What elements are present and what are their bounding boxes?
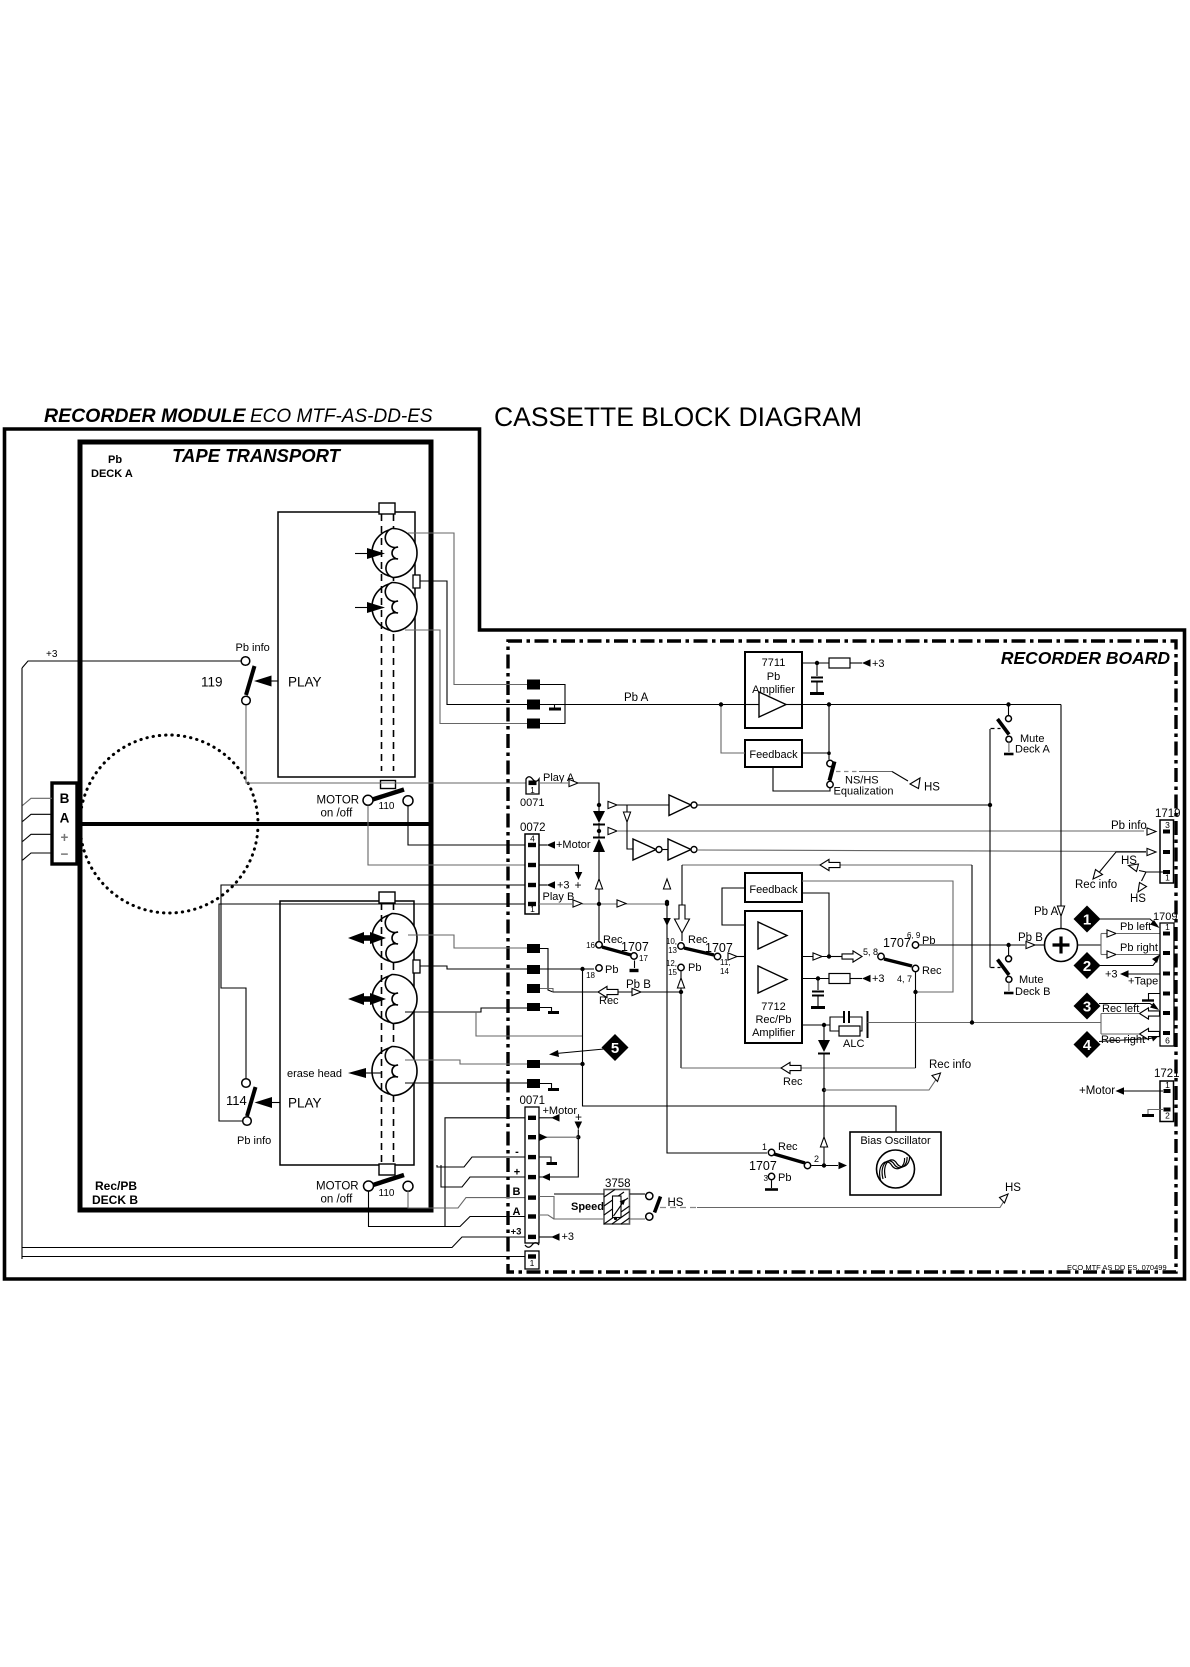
- wire 1721 +Motor: [1079, 1085, 1163, 1097]
- wire Play A out: [539, 779, 599, 805]
- switch 114 top contact: [242, 1079, 251, 1088]
- svg-text:3: 3: [764, 1174, 769, 1183]
- svg-text:Amplifier: Amplifier: [752, 1027, 795, 1039]
- svg-text:B: B: [513, 1186, 521, 1198]
- switch 1707-D lever: [774, 1154, 805, 1163]
- wire headB2 branch: [476, 1012, 583, 1036]
- wire rec loop into 10-13: [675, 865, 690, 941]
- switch NS/HS eq bottom contact: [827, 781, 833, 787]
- wire feedbackA left: [719, 702, 745, 753]
- pad B4 ground stub: [540, 1008, 559, 1013]
- diamond 4: [1074, 1031, 1160, 1058]
- mute deck A switch: [991, 702, 1014, 754]
- wire 11/14 to amp: [728, 953, 745, 960]
- wire motorB branch up x445: [445, 1118, 525, 1227]
- deck A head 2 arrow: [355, 602, 385, 613]
- label 0071 +Motor: [539, 1105, 577, 1122]
- wire motorB left down: [369, 1191, 526, 1227]
- wire headB2 to pad4: [405, 1008, 527, 1012]
- deck B head 2: [372, 974, 417, 1023]
- wire feedbackB outer loop: [802, 881, 953, 992]
- svg-text:3: 3: [1165, 820, 1170, 830]
- wire Play B out: [539, 900, 667, 907]
- svg-text:erase head: erase head: [287, 1068, 342, 1080]
- wire 114 top to +3 0072: [221, 885, 525, 1079]
- svg-text:+Motor: +Motor: [1079, 1085, 1115, 1097]
- switch 1707-A pin16: [586, 934, 649, 954]
- svg-text:1: 1: [1083, 912, 1091, 929]
- diamond 1: [1074, 906, 1160, 933]
- svg-text:Mute: Mute: [1019, 974, 1043, 986]
- switch 114 play arrow: [255, 1096, 322, 1111]
- feedback box A: [745, 740, 802, 767]
- wire 7711 supply: [802, 661, 829, 665]
- deck B tape path dashed: [382, 903, 394, 1164]
- switch 1707-A pin17: [630, 953, 649, 971]
- svg-text:Rec/Pb: Rec/Pb: [755, 1014, 791, 1026]
- switch NS/HS eq lever: [830, 762, 835, 781]
- wire connector-minus hook: [23, 853, 53, 860]
- label 0071 +3 right: [539, 1231, 574, 1243]
- switch 114 bottom contact: [243, 1117, 252, 1126]
- svg-text:+Motor: +Motor: [556, 839, 591, 851]
- switch 1707-B lever: [684, 948, 714, 955]
- svg-text:Pb right: Pb right: [1120, 942, 1158, 954]
- deck divider line: [80, 822, 431, 826]
- deck A head box: [278, 512, 415, 777]
- switch 1707-B pin 11/14: [714, 953, 730, 976]
- diode D1: [593, 783, 605, 837]
- switch 1707-C pin 6/9: [883, 931, 935, 950]
- svg-text:HS: HS: [1005, 1182, 1021, 1194]
- svg-text:2: 2: [814, 1154, 819, 1164]
- wire Pb info long: [597, 827, 1144, 834]
- wire Pb A line: [540, 692, 1061, 705]
- labels 0071 left pins: [511, 1146, 522, 1238]
- label Pb right: [1120, 942, 1158, 954]
- svg-text:2: 2: [1083, 958, 1091, 975]
- svg-text:RECORDER BOARD: RECORDER BOARD: [1001, 648, 1171, 668]
- svg-text:4, 7: 4, 7: [897, 974, 912, 984]
- connector 1719: [1155, 808, 1181, 883]
- wire Rec info: [824, 1059, 971, 1090]
- speed box: [539, 1194, 604, 1219]
- motor switch deck B contacts: [364, 1181, 414, 1191]
- switch 1707-D pin2: [749, 1154, 819, 1173]
- switch 114 lever: [247, 1087, 256, 1116]
- svg-text:ECO MTF-AS-DD-ES: ECO MTF-AS-DD-ES: [250, 406, 433, 427]
- wire rec loop top: [682, 859, 972, 870]
- diode D3: [818, 1025, 830, 1168]
- svg-text:7712: 7712: [761, 1001, 785, 1013]
- svg-text:HS: HS: [924, 782, 940, 794]
- label Rec 4/7: [922, 965, 942, 977]
- switch 119 bottom contact: [242, 696, 251, 705]
- wire connector-B hook: [23, 798, 53, 805]
- wire Pb A down: [1034, 705, 1065, 929]
- svg-text:3758: 3758: [605, 1178, 631, 1190]
- label TAPE TRANSPORT: [172, 445, 342, 466]
- svg-text:Rec info: Rec info: [929, 1059, 971, 1071]
- svg-text:1: 1: [530, 904, 535, 914]
- deck B erase head: [372, 1046, 417, 1095]
- svg-text:Rec: Rec: [783, 1076, 803, 1088]
- svg-text:1: 1: [1165, 922, 1170, 932]
- svg-text:110: 110: [379, 1188, 395, 1199]
- svg-text:114: 114: [226, 1093, 247, 1108]
- svg-text:HS: HS: [1121, 855, 1137, 867]
- label Play B: [543, 891, 575, 903]
- svg-text:7711: 7711: [762, 657, 786, 669]
- svg-text:Equalization: Equalization: [834, 786, 894, 798]
- wire left bus x22: [21, 668, 23, 1259]
- label 0072 +Motor: [539, 839, 591, 851]
- svg-text:+3: +3: [872, 973, 885, 985]
- svg-text:MOTOR: MOTOR: [317, 795, 360, 807]
- wire bottom bus 1259: [22, 1256, 525, 1258]
- wire PlayA junction arrow: [597, 801, 669, 808]
- wire feedbackA right: [802, 752, 829, 754]
- pads deck A group: [527, 680, 540, 729]
- wire padB3 to PbB line: [540, 989, 676, 993]
- wire x599 up arrow: [595, 879, 602, 889]
- wire connector-A hook: [23, 814, 53, 821]
- wire rec loop bottom: [681, 1062, 916, 1088]
- svg-text:17: 17: [639, 954, 648, 963]
- switch 1707-C pin 5/8: [878, 953, 884, 959]
- wire feedbackA bottom: [773, 767, 830, 791]
- switch 1707-D pin1: [762, 1141, 798, 1156]
- resistor R-7712: [802, 973, 885, 985]
- wire HS dashed: [660, 1182, 1021, 1208]
- svg-text:4: 4: [1083, 1037, 1092, 1054]
- switch 1707-B pins 10/13: [666, 934, 733, 955]
- svg-text:−: −: [61, 847, 69, 862]
- wire x627 branch: [623, 805, 633, 849]
- switch 1707-D pin3: [764, 1172, 792, 1190]
- svg-text:Rec right: Rec right: [1101, 1034, 1145, 1046]
- svg-text:Rec info: Rec info: [1075, 879, 1117, 891]
- wire 119 to Play A: [246, 706, 526, 784]
- wire feedbackB right: [802, 893, 829, 957]
- wire headA1 to pad: [408, 533, 527, 685]
- switch 119 labels: [201, 642, 270, 690]
- svg-text:Feedback: Feedback: [749, 749, 798, 761]
- svg-text:Rec: Rec: [599, 995, 619, 1007]
- motor switch deck A lever: [373, 790, 405, 800]
- motor switch deck B lever: [373, 1175, 404, 1185]
- wire motorA left to 0072: [368, 806, 525, 866]
- wire headA2 to pad: [405, 630, 527, 724]
- pads deck B group: [527, 944, 540, 1088]
- svg-text:15: 15: [668, 968, 677, 977]
- svg-text:Deck B: Deck B: [1015, 986, 1050, 998]
- svg-text:ALC: ALC: [843, 1038, 864, 1050]
- svg-text:on /off: on /off: [321, 808, 354, 820]
- motor switch deck A labels: [317, 795, 395, 820]
- svg-text:Rec/PB: Rec/PB: [95, 1179, 137, 1193]
- svg-text:Pb: Pb: [767, 671, 780, 683]
- deck A head 1 arrow: [355, 548, 385, 559]
- wire mute ctrl x990: [988, 729, 992, 968]
- capacitor C-7712: [811, 979, 825, 1008]
- svg-text:+3: +3: [557, 880, 570, 892]
- svg-text:on /off: on /off: [321, 1194, 354, 1206]
- svg-text:18: 18: [586, 971, 595, 980]
- label Rec right: [1101, 1028, 1160, 1046]
- wire 4/7 down: [913, 973, 917, 1069]
- recorder board dash-dot border: [508, 641, 1176, 1272]
- deck A head 1: [372, 528, 417, 577]
- svg-text:1707: 1707: [883, 936, 911, 950]
- svg-text:0071: 0071: [520, 797, 544, 809]
- svg-text:Pb: Pb: [688, 962, 701, 974]
- erase head label+arrow: [287, 1068, 382, 1080]
- op-amp 7712: [745, 911, 802, 1043]
- deck B tape guide bottom: [379, 1164, 395, 1175]
- wire 0072 pin2 plus tag: [539, 865, 582, 892]
- wire bias feed x666: [665, 900, 669, 904]
- svg-text:1: 1: [1165, 873, 1170, 883]
- wire 6/9 PbB: [920, 932, 1045, 949]
- inverter U1: [669, 795, 990, 816]
- svg-text:16: 16: [586, 941, 595, 950]
- wire pin2 to bias osc: [812, 1162, 848, 1170]
- bias oscillator box: [850, 1132, 941, 1195]
- switch 114 labels: [226, 1093, 271, 1147]
- switch NS/HS eq top contact: [827, 760, 833, 766]
- connector 0071 top: [520, 777, 544, 809]
- label Rec left: [1102, 1003, 1160, 1019]
- wire erase top to pad: [405, 1060, 527, 1064]
- svg-text:Deck A: Deck A: [1015, 744, 1051, 756]
- wire rec loop right: [971, 865, 973, 1023]
- dotted motor circle deck A: [80, 735, 258, 913]
- wire 1719 pin2 recinfo: [1075, 848, 1156, 891]
- footer code: [1067, 1263, 1167, 1272]
- svg-text:-: -: [515, 1146, 519, 1158]
- op-amp 7711: [745, 652, 802, 728]
- wire sum to bracket: [1078, 944, 1102, 946]
- deck B head 2 double arrow: [348, 993, 386, 1005]
- connector 1721: [1154, 1068, 1180, 1122]
- deck B tape guide top: [379, 892, 395, 903]
- connector 1709: [1153, 911, 1177, 1046]
- wire motorB right to B pin: [408, 1191, 525, 1208]
- label 0072 +3: [539, 880, 570, 892]
- wire padB2 to pin18: [540, 968, 594, 970]
- diode D2: [593, 838, 605, 942]
- svg-text:Pb info: Pb info: [237, 1135, 271, 1147]
- switch 119 top contact: [241, 657, 250, 666]
- junction PlayB x667: [663, 879, 767, 1153]
- svg-text:1: 1: [530, 1258, 535, 1268]
- pads deck A bracket: [540, 685, 565, 724]
- wire erase bottom to pad: [405, 1082, 527, 1084]
- recorder module border: [5, 429, 1185, 1279]
- svg-text:DECK B: DECK B: [92, 1193, 138, 1207]
- svg-text:+: +: [61, 830, 69, 845]
- wire headB1 to pad: [408, 935, 527, 948]
- wire +3 top: [22, 649, 241, 668]
- svg-text:HS: HS: [1130, 893, 1146, 905]
- svg-text:4: 4: [530, 834, 535, 844]
- junction PbA x829: [827, 702, 831, 759]
- junction Play B x599: [597, 902, 601, 906]
- wire connector-plus hook: [23, 834, 53, 841]
- svg-text:1: 1: [1165, 1080, 1170, 1090]
- svg-text:Pb A: Pb A: [624, 692, 649, 704]
- svg-text:12,: 12,: [666, 959, 677, 968]
- inverter U3: [668, 839, 1146, 860]
- switch 119 play arrow: [254, 675, 322, 690]
- ALC network: [802, 1011, 868, 1050]
- svg-text:+: +: [514, 1167, 520, 1179]
- motor switch deck A contacts: [363, 795, 413, 805]
- svg-text:Pb: Pb: [605, 964, 618, 976]
- label Pb Deck A: [91, 454, 133, 480]
- svg-text:119: 119: [201, 675, 223, 690]
- svg-text:2: 2: [1165, 1111, 1170, 1121]
- wire headB junction to pad: [420, 966, 527, 969]
- svg-text:5: 5: [611, 1040, 619, 1057]
- svg-text:1721: 1721: [1154, 1068, 1180, 1080]
- svg-text:Speed: Speed: [571, 1201, 604, 1213]
- svg-text:ECO MTF AS DD ES, 070499: ECO MTF AS DD ES, 070499: [1067, 1263, 1167, 1272]
- wire padB1 to PbB line: [540, 949, 553, 993]
- deck B head box: [280, 901, 414, 1165]
- svg-text:A: A: [513, 1206, 521, 1218]
- label mute deck B: [1015, 974, 1050, 998]
- label Rec/PB Deck B: [92, 1179, 138, 1207]
- wire padB5 right: [540, 1063, 583, 1065]
- svg-text:Pb info: Pb info: [1111, 820, 1147, 832]
- feedback box B: [745, 873, 802, 902]
- title ECO MTF-AS-DD-ES: [250, 406, 433, 427]
- diamond 3: [1074, 993, 1160, 1020]
- svg-text:0072: 0072: [520, 822, 546, 834]
- switch 119 lever: [246, 666, 255, 695]
- tape transport box: [80, 442, 431, 1210]
- svg-text:Pb left: Pb left: [1120, 921, 1151, 933]
- svg-text:110: 110: [379, 801, 395, 812]
- svg-text:TAPE TRANSPORT: TAPE TRANSPORT: [172, 445, 342, 466]
- deck A tape path dashed: [382, 514, 394, 771]
- svg-text:+Motor: +Motor: [543, 1105, 578, 1117]
- svg-text:B: B: [60, 791, 70, 806]
- svg-text:Pb A: Pb A: [1034, 906, 1059, 918]
- wire pin12/15 down: [677, 972, 684, 1069]
- wire 0071 minus pin left: [437, 1157, 525, 1167]
- wire 0071 plus net: [539, 1110, 582, 1181]
- svg-text:Bias Oscillator: Bias Oscillator: [860, 1135, 931, 1147]
- wire ALC to rec pins: [868, 1020, 1102, 1024]
- label +3 +Tape: [1105, 969, 1160, 988]
- svg-text:+Tape: +Tape: [1128, 976, 1158, 988]
- capacitor C-7711: [810, 665, 824, 694]
- svg-text:1: 1: [762, 1142, 767, 1152]
- pad B6 ground stub: [540, 1084, 559, 1090]
- svg-text:Pb: Pb: [778, 1172, 791, 1184]
- svg-text:Pb info: Pb info: [236, 642, 270, 654]
- svg-text:0071: 0071: [520, 1095, 546, 1107]
- connector 0071 bottom: [520, 1095, 546, 1269]
- motor switch deck B labels: [316, 1181, 395, 1206]
- diamond 5: [549, 1034, 629, 1061]
- wire feedbackB left: [722, 888, 745, 925]
- svg-text:3: 3: [1083, 999, 1091, 1016]
- label Pb info 1719: [1111, 820, 1156, 835]
- svg-text:1719: 1719: [1155, 808, 1181, 820]
- switch 1707-A lever: [602, 947, 631, 955]
- wire bottom bus 1247: [22, 1237, 525, 1248]
- bracket Rec left/right: [1101, 1014, 1139, 1035]
- svg-text:Rec: Rec: [922, 965, 942, 977]
- wire 114 bottom PlayB: [219, 904, 525, 1121]
- bracket Pb left/right: [1101, 930, 1160, 958]
- summing junction: [1045, 929, 1078, 962]
- svg-text:+3: +3: [511, 1227, 522, 1238]
- wire 1719 pin1 HS: [1121, 855, 1163, 905]
- svg-text:Play B: Play B: [543, 891, 575, 903]
- svg-text:CASSETTE BLOCK DIAGRAM: CASSETTE BLOCK DIAGRAM: [494, 402, 862, 432]
- mute deck B switch: [991, 945, 1014, 993]
- deck A tape guide top: [379, 503, 395, 514]
- wire headA junction to pad: [420, 581, 527, 705]
- wire 0071 plus pin left: [441, 1165, 525, 1187]
- svg-text:Rec: Rec: [778, 1141, 798, 1153]
- connector B A + - box: [52, 783, 77, 864]
- label NS/HS Equalization: [834, 775, 894, 798]
- label Play A: [543, 772, 575, 784]
- label mute deck A: [1015, 733, 1051, 756]
- diamond 2: [1074, 952, 1161, 979]
- title CASSETTE BLOCK DIAGRAM: [494, 402, 862, 432]
- deck B head junction block: [413, 960, 420, 973]
- deck A head 2: [372, 582, 417, 631]
- svg-text:+3: +3: [872, 658, 885, 670]
- 0071 minus ground: [539, 1157, 557, 1164]
- resistor R-7711: [829, 658, 885, 670]
- svg-text:5, 8: 5, 8: [863, 947, 878, 957]
- svg-text:+3: +3: [562, 1231, 575, 1243]
- svg-text:A: A: [60, 811, 70, 826]
- deck A tape guide bottom: [381, 781, 396, 789]
- svg-text:MOTOR: MOTOR: [316, 1181, 359, 1193]
- svg-text:13: 13: [668, 946, 677, 955]
- pad A2 ground stub: [549, 705, 561, 710]
- label RECORDER BOARD: [1001, 648, 1171, 668]
- svg-text:PLAY: PLAY: [288, 1096, 322, 1111]
- svg-text:+3: +3: [46, 649, 58, 660]
- switch HS speed: [630, 1192, 684, 1220]
- svg-text:14: 14: [720, 967, 729, 976]
- deck B head 1: [372, 913, 417, 962]
- wire 7712 out: [802, 953, 843, 960]
- svg-text:+3: +3: [1105, 969, 1118, 981]
- svg-text:1: 1: [530, 786, 535, 795]
- deck A head junction block: [413, 575, 420, 588]
- svg-text:PLAY: PLAY: [288, 675, 322, 690]
- svg-text:Pb B: Pb B: [1018, 932, 1043, 944]
- svg-text:Feedback: Feedback: [749, 884, 798, 896]
- connector 0072: [520, 822, 546, 914]
- 1709 pin4 ground: [1142, 994, 1163, 1001]
- svg-text:Pb: Pb: [108, 454, 122, 466]
- svg-text:Pb B: Pb B: [626, 979, 651, 991]
- wire motorA right to 0072: [408, 805, 525, 845]
- title RECORDER MODULE: [44, 405, 246, 427]
